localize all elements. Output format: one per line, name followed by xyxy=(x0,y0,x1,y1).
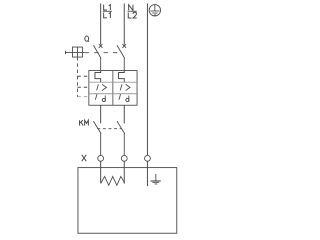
terminal X3 xyxy=(145,155,151,161)
terminal X2 xyxy=(121,155,127,161)
wire X1 into pump xyxy=(100,161,102,183)
motor frame ground xyxy=(150,174,160,184)
contactor KM pole 1 xyxy=(93,121,101,155)
protective earth symbol PE xyxy=(149,5,160,16)
breaker pole 1 contact xyxy=(93,44,102,70)
release box divider row2/3 xyxy=(89,93,137,95)
thermal release pole 2 xyxy=(119,71,125,83)
terminal X1 xyxy=(98,155,104,161)
label Q xyxy=(85,36,89,41)
dashed linkage Q poles xyxy=(85,52,121,54)
contactor KM pole 2 xyxy=(117,121,125,155)
dashed link actuator to releases xyxy=(77,57,88,97)
pump box xyxy=(78,168,177,234)
differential release pole 2 (Id) xyxy=(119,94,129,101)
wire PE vertical xyxy=(146,3,148,155)
wire pole1 to KM xyxy=(100,105,102,123)
wire X2 into pump xyxy=(123,161,125,183)
differential release pole 1 (Id) xyxy=(95,94,105,101)
label KM xyxy=(80,120,89,125)
label X xyxy=(82,155,87,161)
thermal release pole 1 xyxy=(95,71,101,83)
wire N incoming xyxy=(123,3,125,44)
wire X3 into pump xyxy=(146,161,148,186)
magnetic release pole 2 (I>) xyxy=(120,84,130,90)
wire L1 incoming xyxy=(100,3,102,44)
release box xyxy=(89,71,137,106)
heating element resistor xyxy=(101,176,125,185)
release box divider row1/2 xyxy=(89,81,137,83)
magnetic release pole 1 (I>) xyxy=(97,84,107,90)
breaker pole 2 contact xyxy=(117,44,126,70)
label N/L2 xyxy=(128,5,137,18)
dashed linkage KM xyxy=(97,128,121,130)
release box divider vertical xyxy=(112,71,114,106)
wire pole2 to KM xyxy=(123,105,125,123)
label L1/L1 xyxy=(103,5,112,18)
breaker manual actuator xyxy=(65,47,85,57)
